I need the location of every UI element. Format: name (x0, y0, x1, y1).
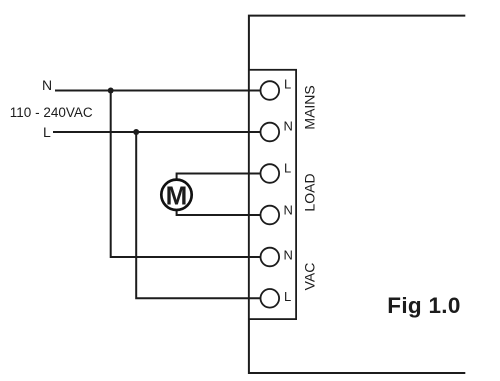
junction dot on L wire (133, 129, 139, 135)
svg-text:LOAD: LOAD (301, 173, 317, 211)
svg-text:M: M (166, 180, 188, 210)
svg-text:110 - 240VAC: 110 - 240VAC (10, 105, 93, 120)
wire N supply to MAINS L (55, 90, 264, 92)
wire L supply to MAINS N (53, 131, 264, 133)
motor M1 circle (161, 180, 191, 210)
svg-text:L: L (43, 124, 51, 140)
svg-text:N: N (284, 248, 293, 263)
svg-text:L: L (284, 289, 291, 304)
terminal MAINS N (261, 123, 280, 142)
svg-text:N: N (42, 77, 52, 93)
terminal VAC N (261, 248, 280, 267)
terminal LOAD N (261, 206, 280, 225)
junction dot on N wire (108, 88, 114, 94)
terminal LOAD L (261, 164, 280, 183)
svg-text:VAC: VAC (301, 263, 317, 291)
wire motor bottom to LOAD N (177, 211, 264, 216)
wire motor top to LOAD L (177, 174, 264, 180)
svg-text:L: L (284, 77, 291, 92)
wire from L junction down to VAC L (136, 132, 264, 298)
svg-text:N: N (284, 119, 293, 134)
terminal block (249, 70, 296, 319)
svg-text:N: N (284, 203, 293, 218)
device enclosure outline (open right side) (249, 16, 465, 373)
terminal VAC L (261, 289, 280, 308)
svg-text:Fig 1.0: Fig 1.0 (387, 293, 460, 318)
svg-text:L: L (284, 161, 291, 176)
wire from N junction down to VAC N (111, 91, 264, 258)
svg-text:MAINS: MAINS (301, 85, 317, 129)
terminal MAINS L (261, 81, 280, 100)
